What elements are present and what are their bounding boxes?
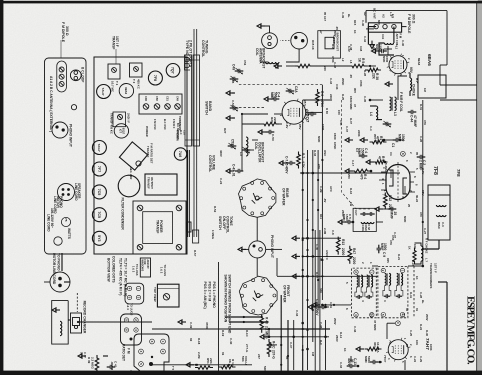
svg-text:BC ANT: BC ANT: [373, 8, 377, 19]
svg-text:7A6: 7A6: [178, 151, 182, 157]
record changer plug: [50, 272, 70, 292]
svg-text:F M R F: F M R F: [172, 119, 176, 129]
wire C13 branch: [355, 365, 358, 367]
svg-text:POS 3 = AM (BC): POS 3 = AM (BC): [203, 282, 207, 309]
svg-text:A7: A7: [319, 30, 323, 34]
svg-text:R15 1K: R15 1K: [311, 40, 315, 51]
svg-text:ANT COIL: ANT COIL: [395, 34, 399, 47]
svg-text:R51: R51: [206, 358, 210, 364]
node K: [401, 151, 406, 156]
svg-text:MMF: MMF: [364, 356, 368, 363]
wire coil to grid: [379, 43, 394, 55]
svg-text:R11: R11: [319, 214, 323, 219]
capacitor C5 1500MMF: [350, 221, 354, 223]
wire border bus right: [446, 11, 448, 65]
svg-text:L2: L2: [341, 58, 345, 62]
wire tone branch: [230, 328, 330, 330]
capacitor C1 1500MMF: [398, 139, 402, 141]
scan edge bar bottom: [0, 0, 3, 375]
svg-text:6BA6: 6BA6: [124, 87, 128, 94]
svg-text:1500: 1500: [333, 133, 337, 140]
svg-text:150: 150: [337, 110, 341, 115]
svg-text:25: 25: [407, 204, 411, 208]
wire 7Q7 plate: [306, 111, 322, 113]
svg-text:50K: 50K: [241, 356, 245, 362]
wire bus F: [325, 320, 327, 370]
capacitor C9 1500MMF: [378, 245, 380, 249]
wire bus B: [307, 150, 309, 370]
svg-text:MMF: MMF: [270, 92, 274, 99]
svg-text:R-33: R-33: [313, 150, 317, 157]
svg-text:470: 470: [360, 174, 364, 180]
wire wafer aux: [287, 320, 289, 374]
svg-text:R-22: R-22: [415, 196, 419, 203]
resistor R6 470K: [316, 89, 320, 106]
svg-text:2?7-G: 2?7-G: [245, 344, 249, 353]
svg-text:05: 05: [231, 80, 235, 84]
svg-text:COIL: COIL: [361, 225, 365, 233]
svg-text:C-38: C-38: [333, 62, 337, 69]
wire front wafer down: [280, 295, 282, 374]
svg-text:C49: C49: [232, 64, 236, 70]
svg-text:10K: 10K: [415, 340, 419, 345]
wire R5 chain: [364, 65, 370, 67]
resistor R3 47: [373, 160, 388, 164]
svg-text:C-52: C-52: [231, 100, 235, 107]
svg-text:01: 01: [221, 352, 225, 356]
wire bus D: [317, 150, 319, 310]
panel line cord hole: [54, 237, 62, 245]
svg-text:R-23: R-23: [411, 260, 415, 267]
svg-text:C-40: C-40: [361, 20, 365, 27]
wire IF plate: [372, 265, 378, 267]
capacitor C2 2MMF: [422, 156, 426, 158]
svg-text:C-40: C-40: [401, 40, 405, 47]
svg-text:T 2: T 2: [132, 79, 136, 84]
chassis tube 7AH7 socket: [97, 85, 111, 99]
svg-text:C-45: C-45: [363, 96, 367, 103]
svg-text:ESPEY MFG. CO.: ESPEY MFG. CO.: [464, 296, 475, 365]
svg-text:MMF: MMF: [380, 243, 384, 251]
svg-text:6BA6: 6BA6: [417, 58, 421, 66]
transformer bottom view A: [125, 283, 144, 304]
capacitor C-13: [352, 365, 356, 367]
svg-text:AVC: AVC: [329, 186, 333, 193]
broadcast antenna coil L2: [265, 62, 279, 64]
svg-text:C 9: C 9: [382, 252, 386, 257]
capacitor C4 1500MMF: [364, 155, 368, 157]
wire bus A: [302, 100, 304, 370]
svg-text:C51: C51: [166, 96, 170, 101]
panel phono input jack: [52, 122, 68, 138]
svg-text:WATTS: WATTS: [67, 228, 71, 239]
svg-text:R27: R27: [223, 128, 227, 134]
svg-text:F: F: [396, 322, 400, 324]
junction dots: [312, 172, 315, 175]
svg-text:-2.6V: -2.6V: [285, 121, 289, 129]
wire 6BA6 grid: [387, 46, 389, 55]
resistor loop series: [295, 64, 313, 68]
svg-text:OSC: OSC: [323, 150, 327, 157]
resistor R51 22K: [195, 366, 213, 370]
svg-text:B.C OSC: B.C OSC: [163, 119, 167, 130]
svg-text:C-24: C-24: [413, 356, 417, 363]
svg-text:MMF: MMF: [403, 216, 407, 223]
chassis trimmer cluster: [139, 94, 182, 114]
svg-text:.002 M: .002 M: [110, 361, 114, 371]
ground stub left A: [232, 92, 235, 94]
svg-text:TO LUGS: TO LUGS: [163, 265, 167, 277]
wire loop to coil: [286, 49, 299, 62]
svg-text:95V: 95V: [298, 124, 302, 130]
svg-text:C-2B: C-2B: [319, 186, 323, 193]
svg-text:TRANSF: TRANSF: [146, 146, 150, 158]
wire trunk 4: [302, 237, 341, 239]
wire record changer riser: [78, 321, 152, 323]
svg-text:L3: L3: [393, 112, 397, 116]
svg-text:A2: A2: [382, 14, 386, 18]
adjust box: [140, 258, 150, 277]
svg-text:C-3?: C-3?: [289, 342, 293, 349]
wire trunk 6: [269, 336, 329, 338]
svg-text:05 C4?: 05 C4?: [323, 12, 327, 21]
svg-text:LINE CORD: LINE CORD: [74, 183, 78, 201]
svg-text:AM R F: AM R F: [325, 250, 329, 260]
tuning gang assembly: [193, 55, 200, 146]
svg-text:47: 47: [378, 156, 382, 160]
svg-text:R47: R47: [352, 248, 356, 254]
svg-text:TO LUGS: TO LUGS: [135, 264, 139, 276]
phono input jack: [249, 241, 266, 258]
capacitor C-42 1500MMF: [383, 50, 387, 52]
svg-text:250V: 250V: [341, 210, 345, 217]
wire AVC return: [242, 113, 268, 115]
svg-text:47K: 47K: [317, 164, 321, 169]
svg-text:1 & 2: 1 & 2: [132, 266, 136, 273]
svg-text:C-31: C-31: [329, 302, 333, 309]
svg-text:B+: B+: [421, 300, 425, 304]
svg-text:1.5: 1.5: [129, 370, 133, 374]
svg-text:DISC: DISC: [437, 222, 441, 230]
wires record changer to schematic: [76, 293, 78, 312]
svg-text:47: 47: [353, 104, 357, 108]
svg-text:C-37: C-37: [345, 126, 349, 133]
wire top-left stubs: [383, 22, 390, 24]
svg-text:T 1: T 1: [115, 81, 119, 86]
svg-text:C50: C50: [155, 96, 159, 101]
transformer top view: [157, 284, 179, 307]
svg-text:5.0MA: 5.0MA: [384, 163, 388, 173]
scan edge bar right: [0, 371, 482, 375]
svg-text:C49: C49: [176, 96, 180, 101]
wire right margin long: [446, 282, 448, 372]
svg-text:FOR: FOR: [143, 260, 145, 265]
svg-text:R-5?: R-5?: [193, 250, 197, 257]
svg-text:F M: F M: [127, 348, 131, 354]
svg-text:TRANSF: TRANSF: [155, 220, 159, 233]
chassis tube 7A6 socket: [174, 148, 186, 160]
svg-text:1W: 1W: [349, 202, 353, 207]
svg-text:C-30: C-30: [315, 244, 319, 251]
chassis output transformer: [145, 174, 177, 195]
ground 6BA6 cathode: [385, 82, 393, 86]
svg-text:R-17: R-17: [315, 272, 319, 279]
svg-text:TRANSF 455 KC: TRANSF 455 KC: [110, 113, 114, 134]
svg-text:30C: 30C: [373, 342, 377, 348]
wire osc bottom: [274, 113, 282, 115]
svg-text:R-28: R-28: [363, 70, 367, 77]
gang line dash: [238, 83, 322, 85]
svg-text:MOTOR LINE CORD: MOTOR LINE CORD: [52, 253, 56, 285]
wire trunk 3: [302, 255, 353, 257]
svg-text:7F8: 7F8: [153, 75, 157, 81]
ground phono jack: [244, 248, 249, 250]
ground R4: [345, 169, 353, 173]
svg-text:C51: C51: [243, 60, 247, 66]
svg-text:R13: R13: [341, 239, 345, 245]
svg-text:C-44: C-44: [410, 115, 414, 122]
svg-text:C44: C44: [339, 120, 343, 126]
svg-text:R-40: R-40: [425, 330, 429, 337]
svg-text:R-41: R-41: [409, 292, 413, 299]
svg-text:95V: 95V: [373, 134, 377, 139]
svg-text:02: 02: [405, 308, 409, 312]
svg-text:C48: C48: [144, 96, 148, 101]
wire strip to border: [365, 11, 367, 23]
resistor R13 2200: [336, 237, 340, 255]
capacitor C-7 .05 400V: [292, 162, 296, 164]
svg-text:7C5: 7C5: [97, 211, 101, 218]
wire volume feed: [152, 364, 252, 366]
svg-text:22K: 22K: [329, 94, 333, 99]
ground stub left B: [232, 117, 235, 119]
svg-text:B C LOOP: B C LOOP: [81, 67, 85, 83]
svg-text:7AG7: 7AG7: [97, 143, 101, 151]
svg-text:1500 MMF: 1500 MMF: [349, 96, 353, 110]
wire phono bus: [266, 248, 282, 250]
svg-text:B+: B+: [347, 14, 351, 18]
svg-text:10.7 MC: 10.7 MC: [111, 81, 115, 93]
svg-text:7Q7: 7Q7: [170, 67, 174, 74]
svg-text:7F7: 7F7: [97, 166, 101, 172]
chassis 2nd IF transformer: [113, 112, 126, 127]
capacitor 560MMF: [276, 98, 280, 100]
svg-text:PHONO INPUT: PHONO INPUT: [69, 124, 73, 147]
IF transformer T2 dashed: [352, 268, 377, 318]
wire B+ bus top: [422, 100, 424, 266]
svg-text:3: 3: [401, 196, 405, 198]
svg-text:RATIO DET: RATIO DET: [122, 344, 126, 361]
dash gang diagonal: [342, 100, 370, 209]
gang dash line 2: [234, 107, 264, 109]
svg-text:R-2: R-2: [331, 44, 335, 49]
svg-text:L1: L1: [395, 46, 399, 50]
capacitor C-47 .01: [240, 170, 244, 172]
shaft knob flats: [193, 230, 199, 243]
tube 7Q7 converter: [282, 101, 306, 125]
ground symbols extra: [345, 138, 353, 142]
svg-text:CONTROL: CONTROL: [201, 40, 205, 58]
IF transformer T1 dashed: [378, 266, 408, 317]
dash bracket IF: [413, 266, 415, 318]
tube 7F8 FM detector-oscillator: [386, 165, 410, 200]
svg-text:220: 220: [323, 66, 327, 71]
svg-text:C-40: C-40: [229, 338, 233, 345]
chassis tube 7AG7 socket: [92, 141, 106, 155]
svg-text:B.C ANTENNA: B.C ANTENNA: [176, 123, 179, 140]
rear panel outline: [45, 58, 87, 254]
svg-text:C-39: C-39: [189, 322, 193, 329]
svg-text:400V: 400V: [219, 150, 223, 157]
component box at top: [418, 75, 446, 98]
svg-text:COIL: COIL: [399, 104, 403, 112]
wire disc box to bus: [438, 240, 440, 249]
svg-text:F M DIPOLE: F M DIPOLE: [407, 14, 411, 34]
ground loop jack: [263, 26, 270, 33]
scan edge bar left: [0, 1, 482, 4]
chassis outline: [94, 57, 187, 254]
svg-text:.01: .01: [232, 172, 236, 177]
svg-text:01: 01: [415, 308, 419, 312]
antenna coil L1: [385, 43, 394, 45]
chassis tube 7F7 socket: [92, 162, 106, 176]
panel antenna screw pill: [57, 61, 67, 92]
svg-text:1K: 1K: [408, 246, 412, 250]
chassis tube 7F8 socket: [148, 71, 162, 85]
svg-text:1K: 1K: [353, 30, 357, 34]
svg-text:C1: C1: [391, 143, 395, 147]
ratio det bottom view: [134, 334, 169, 371]
svg-text:90V: 90V: [353, 88, 357, 93]
svg-text:WINDOWS: WINDOWS: [140, 260, 142, 272]
resistor R8: [365, 347, 382, 351]
svg-text:R-16: R-16: [349, 188, 353, 195]
svg-text:C-29: C-29: [419, 356, 423, 363]
panel speaker socket: [58, 184, 75, 201]
resistor R47 2200: [348, 246, 352, 264]
wire bus C: [312, 150, 314, 342]
wire wafer connections: [256, 217, 258, 241]
chassis FM ratio det transformer: [119, 142, 147, 170]
wire det trunk: [383, 208, 396, 210]
resistor R4 470: [352, 169, 371, 173]
svg-text:C 4?: C 4?: [83, 352, 87, 358]
ground strip: [370, 41, 374, 49]
trimmer C5: [388, 123, 392, 125]
svg-text:SWITCH: SWITCH: [205, 101, 209, 115]
svg-text:C53: C53: [183, 130, 187, 135]
capacitor C-6 .1 200V: [324, 306, 328, 308]
svg-text:50K: 50K: [263, 366, 267, 372]
wire switch feed B: [229, 321, 269, 323]
svg-text:R-14: R-14: [339, 332, 343, 339]
svg-text:100K: 100K: [429, 344, 433, 351]
svg-text:47 MMF: 47 MMF: [373, 320, 377, 331]
FM RF coil L3: [395, 97, 397, 111]
switch wafer front: [239, 276, 277, 315]
capacitor 25MMF: [393, 208, 397, 210]
svg-text:2200: 2200: [341, 248, 345, 256]
svg-text:T 2: T 2: [369, 313, 373, 318]
wire bus vertical: [366, 10, 447, 12]
svg-text:250V: 250V: [335, 335, 339, 342]
resistor R-10: [267, 339, 271, 357]
capacitor .002: [313, 113, 317, 115]
wire top-right connect: [440, 64, 447, 66]
svg-text:7AH7: 7AH7: [101, 88, 105, 96]
resistor R13 9K: [219, 365, 236, 369]
svg-text:C-3?: C-3?: [393, 232, 397, 239]
svg-text:1M: 1M: [423, 88, 427, 93]
svg-text:F M OSC: F M OSC: [153, 119, 157, 130]
svg-text:OF WAFER: OF WAFER: [283, 285, 287, 303]
svg-text:R-52: R-52: [213, 206, 217, 213]
svg-text:R 39: R 39: [87, 357, 91, 364]
svg-text:7F8: 7F8: [456, 169, 461, 177]
coil L5: [246, 137, 248, 156]
svg-text:C41: C41: [381, 34, 385, 40]
svg-text:470K: 470K: [205, 322, 209, 330]
svg-text:C-25: C-25: [409, 330, 413, 337]
svg-text:SWITCH: SWITCH: [218, 216, 222, 230]
chassis tube 5Y3 socket: [92, 231, 106, 245]
svg-text:F M DIPOLE: F M DIPOLE: [61, 22, 65, 43]
svg-text:237-G: 237-G: [272, 350, 276, 359]
pilot lights bracket: [185, 55, 191, 70]
svg-text:2.2M: 2.2M: [197, 352, 201, 359]
svg-text:250V: 250V: [333, 318, 337, 325]
svg-text:47K: 47K: [423, 120, 427, 125]
svg-text:R12: R12: [388, 195, 392, 201]
svg-text:5Y3: 5Y3: [97, 235, 101, 241]
svg-text:C53: C53: [231, 139, 235, 145]
svg-text:1 MEG: 1 MEG: [211, 230, 215, 240]
svg-text:COIL: COIL: [254, 142, 258, 150]
svg-text:C-44: C-44: [353, 326, 357, 333]
capacitor 5000MMF: [375, 361, 379, 363]
svg-text:C43: C43: [335, 84, 339, 90]
wire vertical trunk: [300, 172, 400, 174]
wire bus E: [321, 85, 323, 300]
svg-text:L6: L6: [349, 60, 353, 64]
svg-text:SEC. ADJ: SEC. ADJ: [129, 167, 133, 180]
svg-text:7Q7: 7Q7: [305, 114, 310, 123]
chassis tube 7C5b socket: [92, 208, 106, 222]
svg-text:237: 237: [257, 354, 261, 359]
svg-text:C-8: C-8: [331, 230, 335, 235]
svg-text:A2: A2: [363, 12, 367, 16]
svg-text:250: 250: [347, 174, 351, 179]
svg-text:POS 1 = PHONO: POS 1 = PHONO: [212, 282, 216, 309]
svg-text:MMF: MMF: [317, 136, 321, 143]
choke L7 1K RF choke: [421, 246, 423, 261]
svg-text:MMF: MMF: [390, 212, 394, 220]
ground FM osc: [338, 220, 346, 224]
svg-text:LINE CORD: LINE CORD: [47, 214, 51, 232]
svg-text:300 Ω: 300 Ω: [412, 14, 416, 24]
wire dipole leader: [402, 26, 407, 28]
switch wafer rear: [239, 179, 276, 217]
svg-text:R F: R F: [399, 98, 403, 103]
svg-text:RECORD CHANGER: RECORD CHANGER: [83, 301, 87, 334]
svg-text:1K: 1K: [343, 348, 347, 352]
svg-text:1K: 1K: [415, 276, 419, 280]
svg-text:C-34: C-34: [295, 310, 299, 317]
chassis tube 7C5 socket: [92, 185, 106, 199]
svg-text:680: 680: [377, 20, 381, 25]
wire trunk 2: [302, 275, 378, 277]
svg-text:R-3?: R-3?: [349, 118, 353, 125]
